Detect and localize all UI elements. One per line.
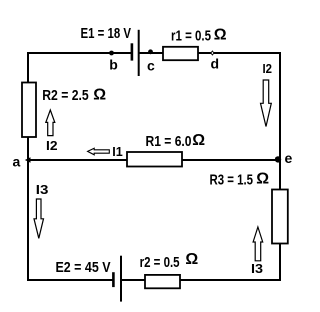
resistor R2 <box>22 83 36 138</box>
wire middle horizontal left (node a to R1) <box>28 159 128 161</box>
node b <box>109 51 114 56</box>
resistor r2 <box>145 275 180 288</box>
svg-text:I2: I2 <box>46 138 58 153</box>
svg-text:E2 = 45 V: E2 = 45 V <box>56 259 111 276</box>
wire left vertical upper (R2 to corner) <box>27 52 29 83</box>
svg-text:r1 = 0.5: r1 = 0.5 <box>171 28 211 45</box>
svg-text:c: c <box>147 58 155 74</box>
svg-text:R3 = 1.5: R3 = 1.5 <box>210 171 254 188</box>
svg-text:I1: I1 <box>112 144 123 159</box>
wire right vertical upper (corner to R3) <box>279 52 281 190</box>
resistor R1 <box>127 152 182 167</box>
svg-text:r2 = 0.5: r2 = 0.5 <box>140 254 180 271</box>
node a (junction arrow) <box>25 157 31 162</box>
svg-text:d: d <box>211 56 220 72</box>
battery E1 short plate <box>131 43 134 60</box>
wire top-right horizontal (r1 to corner) <box>198 52 282 54</box>
wire right vertical lower (R3 to corner) <box>279 243 281 281</box>
svg-text:Ω: Ω <box>185 251 198 268</box>
svg-text:I2: I2 <box>263 61 273 76</box>
wire bottom-middle horizontal (r2 to battery E2) <box>122 279 146 281</box>
svg-text:I3: I3 <box>251 261 263 276</box>
wire top-middle horizontal (battery E1 to r1) <box>139 52 164 54</box>
battery E1 long plate <box>138 30 140 76</box>
svg-text:E1 = 18 V: E1 = 18 V <box>81 25 132 42</box>
svg-text:Ω: Ω <box>192 132 205 149</box>
svg-text:e: e <box>285 150 293 166</box>
wire top-left horizontal <box>27 52 132 54</box>
wire bottom-left horizontal (battery E2 to corner) <box>27 279 113 281</box>
wire left vertical lower (corner through node a to R2) <box>27 137 29 282</box>
svg-text:b: b <box>109 57 118 73</box>
svg-text:a: a <box>13 153 21 169</box>
svg-text:R1 = 6.0: R1 = 6.0 <box>146 133 192 150</box>
arrow I3 down (left side) <box>34 199 44 238</box>
battery E2 short plate <box>112 272 115 287</box>
svg-text:Ω: Ω <box>93 86 106 103</box>
resistor R3 <box>272 190 288 244</box>
node d (open diamond) <box>211 51 214 55</box>
svg-text:R2 = 2.5: R2 = 2.5 <box>42 87 88 104</box>
wire bottom-right horizontal (corner to r2) <box>180 279 282 281</box>
arrow I2 down (right side) <box>261 80 272 127</box>
node c <box>148 49 153 54</box>
svg-text:Ω: Ω <box>256 171 269 188</box>
wire middle horizontal right (R1 to node e) <box>182 159 281 161</box>
battery E2 long plate <box>120 256 122 302</box>
resistor r1 <box>163 47 198 60</box>
svg-text:Ω: Ω <box>214 27 227 44</box>
svg-text:I3: I3 <box>36 182 49 197</box>
node e <box>275 156 281 162</box>
arrow I3 up (right side) <box>253 227 263 261</box>
arrow I2 up (left side) <box>46 110 55 136</box>
arrow I1 left (middle) <box>88 148 110 155</box>
